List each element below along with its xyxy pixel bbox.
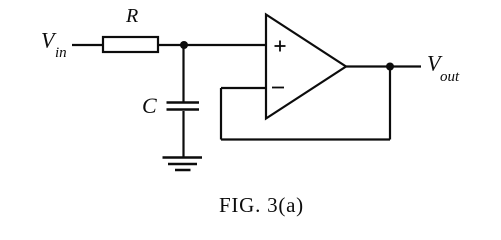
- wire capacitor to ground: [182, 111, 184, 157]
- input terminal label V_in: [41, 28, 67, 62]
- capacitor C: [167, 103, 200, 110]
- op-amp - pin marker: [272, 87, 284, 89]
- svg-text:out: out: [440, 69, 460, 85]
- wire feedback left vertical: [220, 88, 222, 140]
- wire feedback bottom horizontal: [221, 138, 390, 140]
- wire node A to op-amp noninverting input: [184, 44, 266, 46]
- wire op-amp inverting input to feedback (left segment): [221, 87, 266, 89]
- wire Vin lead to resistor R: [72, 44, 103, 46]
- node A junction dot: [180, 41, 188, 49]
- op-amp + pin marker: [275, 41, 286, 52]
- wire feedback right vertical to output node: [389, 67, 391, 140]
- wire op-amp output to terminal: [346, 65, 421, 67]
- svg-text:R: R: [125, 5, 138, 27]
- output node junction dot: [386, 63, 394, 71]
- ground: [163, 158, 203, 171]
- output terminal label V_out: [427, 51, 460, 86]
- wire node A down to capacitor C: [182, 45, 184, 102]
- op-amp U1 triangle: [266, 15, 346, 119]
- resistor R: [103, 37, 158, 52]
- svg-text:C: C: [142, 93, 157, 118]
- svg-text:in: in: [55, 45, 67, 61]
- svg-text:FIG. 3(a): FIG. 3(a): [219, 193, 304, 217]
- wire resistor to node A: [158, 44, 184, 46]
